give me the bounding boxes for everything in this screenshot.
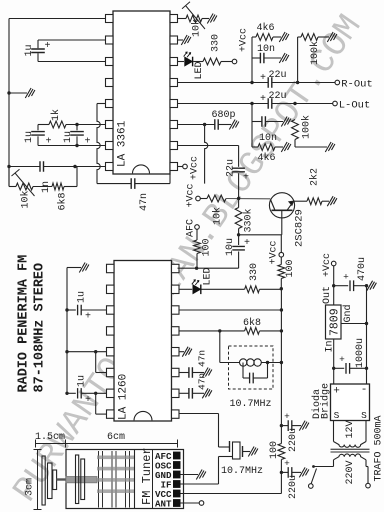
U2 left pin y=310.0 xyxy=(107,306,115,314)
svg-text:LA 3361: LA 3361 xyxy=(116,120,128,167)
node xyxy=(7,165,10,168)
node R 100k xyxy=(296,81,299,84)
svg-text:+: + xyxy=(284,411,290,422)
node xyxy=(73,165,76,168)
wire gnd stub xyxy=(9,92,27,94)
U2 left pin y=330.9 xyxy=(107,327,115,335)
resistor R16 100 xyxy=(278,444,285,460)
node xyxy=(332,284,335,287)
LED D1 xyxy=(178,61,185,63)
node AFC terminal xyxy=(195,225,200,230)
Q1 emitter arrow xyxy=(287,201,294,210)
svg-text:1u: 1u xyxy=(77,291,88,303)
svg-text:1k: 1k xyxy=(50,109,62,121)
LED D2 xyxy=(193,285,201,294)
U1 right pin y=61.5 xyxy=(170,58,178,66)
node xyxy=(94,392,97,395)
U2 left pin y=268.5 xyxy=(107,264,115,272)
wire U2 pin row8 to filter xyxy=(179,413,219,415)
wire U2 pin row4 with 6k8 xyxy=(179,330,245,332)
svg-text:100k: 100k xyxy=(301,115,313,139)
wire R-channel row xyxy=(178,82,269,84)
transistor U2 LA1260 FM IF IC xyxy=(114,261,172,422)
LED D1 xyxy=(185,57,193,66)
node R filter xyxy=(250,81,253,84)
T2 core xyxy=(331,448,370,450)
tuner pin IF xyxy=(173,480,181,488)
resistor R10 330k xyxy=(235,208,242,229)
svg-text:2k2: 2k2 xyxy=(309,168,321,186)
ground xyxy=(299,467,309,477)
SW1 lever xyxy=(311,469,316,484)
node xyxy=(280,471,283,474)
wire gnd rail xyxy=(366,286,368,384)
svg-text:Bridge: Bridge xyxy=(320,383,332,419)
svg-text:220V: 220V xyxy=(345,460,356,484)
U1 left pin y=145.5 xyxy=(106,142,114,150)
node rail-gnd junction xyxy=(7,91,10,94)
resistor R11 100 xyxy=(196,229,198,240)
ground xyxy=(181,35,191,45)
capacitor C18 1000u xyxy=(334,367,345,369)
node +Vcc pin9 xyxy=(183,164,188,169)
U2 left pin y=351.7 xyxy=(107,348,115,356)
svg-text:47n: 47n xyxy=(196,373,207,390)
svg-text:3cm: 3cm xyxy=(25,478,36,496)
svg-text:+: + xyxy=(244,238,250,249)
node LED2/330 junction xyxy=(280,287,283,290)
U2 right pin y=393.3 xyxy=(172,389,180,397)
node xyxy=(266,361,269,364)
capacitor C17 470u xyxy=(334,285,349,287)
svg-text:6cm: 6cm xyxy=(107,432,125,443)
svg-text:TRAFO 500mA: TRAFO 500mA xyxy=(374,415,384,481)
wire U1 pin2 xyxy=(38,39,106,41)
Q1 collector xyxy=(270,199,275,210)
tuner pin OSC xyxy=(173,461,181,469)
U1 left pin y=61.5 xyxy=(106,58,114,66)
ground xyxy=(207,14,217,24)
svg-text:680p: 680p xyxy=(211,110,235,121)
U1 left pin y=124.5 xyxy=(106,121,114,129)
node +Vcc supply terminal xyxy=(331,261,336,266)
resistor R15 6k8 xyxy=(245,328,260,335)
wire tuner GND xyxy=(181,474,199,476)
transformer T2 xyxy=(333,421,335,442)
svg-text:1u: 1u xyxy=(77,375,88,387)
svg-text:1u: 1u xyxy=(24,44,35,56)
tuner pin ANT xyxy=(173,499,181,507)
crystal X1 10.7MHz ceramic filter xyxy=(229,441,231,452)
U2 right pin y=414.1 xyxy=(172,410,180,418)
svg-text:+: + xyxy=(284,458,290,469)
svg-text:+: + xyxy=(44,41,50,52)
capacitor T1 cap xyxy=(242,363,244,379)
dimension lines xyxy=(36,443,178,445)
capacitor C5 22u xyxy=(268,77,272,88)
node 1k/1u junction xyxy=(75,123,78,126)
wire U1 pin3 xyxy=(38,61,106,63)
VR2 arrow xyxy=(182,2,205,29)
node xyxy=(280,361,283,364)
node +Vcc mid terminal xyxy=(196,196,201,201)
svg-text:+: + xyxy=(339,354,345,365)
wire U1 pin5 down-rail with hops xyxy=(97,103,106,105)
U2 right pin y=330.9 xyxy=(172,327,180,335)
svg-text:Out: Out xyxy=(322,286,333,304)
node mains terminal N xyxy=(366,483,371,488)
U1 left pin y=82.5 xyxy=(106,79,114,87)
svg-text:+: + xyxy=(243,173,249,184)
capacitor C13 47n xyxy=(179,372,189,374)
wire U2 pin-top row to 10u xyxy=(178,267,239,269)
capacitor C19 1u xyxy=(67,309,76,311)
resistor R2 1k xyxy=(38,124,49,126)
capacitor C15 220u xyxy=(281,425,288,427)
wire 680p down rail with hop xyxy=(205,125,208,184)
svg-text:330k: 330k xyxy=(243,208,255,232)
svg-text:ANT: ANT xyxy=(155,498,172,509)
resistor R9 10k xyxy=(200,198,207,200)
U2 notch xyxy=(134,411,152,420)
resistor VR2 10k pot (pin16) xyxy=(178,18,187,20)
ground xyxy=(229,120,239,130)
node xyxy=(65,308,68,311)
wire U2 pin row3 xyxy=(179,309,281,311)
switch SW1 xyxy=(312,465,315,468)
svg-text:7809: 7809 xyxy=(328,308,341,336)
svg-text:-: - xyxy=(361,384,368,396)
svg-text:+Vcc: +Vcc xyxy=(190,156,201,180)
svg-text:4k6: 4k6 xyxy=(257,152,275,164)
node xyxy=(280,424,283,427)
wire L branch rail xyxy=(251,104,253,148)
svg-text:1.5cm: 1.5cm xyxy=(35,432,65,443)
U2 right pin y=310.0 xyxy=(172,306,180,314)
svg-text:LA 1260: LA 1260 xyxy=(117,374,129,420)
svg-text:S: S xyxy=(361,410,367,421)
svg-text:+: + xyxy=(260,94,266,105)
resistor R6 100k xyxy=(297,37,299,83)
svg-text:10k: 10k xyxy=(191,19,203,37)
wire L-channel row xyxy=(178,103,269,105)
node xyxy=(332,367,335,370)
tuner pin GND xyxy=(173,471,181,479)
svg-text:+Vcc: +Vcc xyxy=(322,253,333,277)
node base bias xyxy=(237,197,240,200)
svg-text:22u: 22u xyxy=(268,70,286,81)
wire coil right xyxy=(261,362,281,364)
U2 left pin y=414.1 xyxy=(107,410,115,418)
node osc junction xyxy=(218,329,221,332)
wire U2 pins 5/6 strap xyxy=(67,351,107,353)
svg-text:10n: 10n xyxy=(257,44,275,55)
U2 left pin y=393.3 xyxy=(107,389,115,397)
U1 right pin y=18.5 xyxy=(170,15,178,23)
wire bottom path xyxy=(8,167,10,187)
wire U1 pin1 to left rail xyxy=(9,18,106,20)
U1 right pin y=82.5 xyxy=(170,79,178,87)
wire U1 pin8 row xyxy=(9,166,40,168)
svg-text:47n: 47n xyxy=(196,350,207,367)
capacitor C2 1u xyxy=(37,125,39,131)
wire left rail xyxy=(8,19,10,187)
svg-text:+: + xyxy=(85,312,91,323)
svg-text:10.7MHz: 10.7MHz xyxy=(221,466,263,477)
svg-text:+: + xyxy=(85,395,91,406)
node xyxy=(65,392,68,395)
ground xyxy=(279,32,289,42)
U2 left pin y=372.5 xyxy=(107,368,115,376)
resistor R5 4k6 xyxy=(252,36,256,38)
svg-text:4k6: 4k6 xyxy=(256,22,274,34)
svg-text:100: 100 xyxy=(285,259,296,277)
resistor R4 330 xyxy=(203,58,221,65)
svg-text:10n: 10n xyxy=(259,133,277,144)
wire U1 pin7 left xyxy=(38,145,106,147)
U1 right pin y=166.5 xyxy=(170,163,178,171)
transistor Q1 2SC829 xyxy=(269,193,294,218)
ground xyxy=(299,421,309,431)
tuner pin AFC xyxy=(173,452,181,460)
wire base to bias node xyxy=(239,234,282,236)
VR1 arrow xyxy=(12,169,35,196)
LED D2 xyxy=(179,288,192,290)
node L 100k xyxy=(293,102,296,105)
svg-text:220u: 220u xyxy=(288,475,299,499)
svg-text:100k: 100k xyxy=(309,41,321,65)
svg-text:1000u: 1000u xyxy=(355,338,366,368)
tuner knob xyxy=(42,456,45,505)
capacitor C20 1u xyxy=(67,392,76,394)
capacitor C14 47n xyxy=(179,392,189,394)
svg-text:R-Out: R-Out xyxy=(341,79,373,91)
U1 notch xyxy=(133,165,150,174)
ground xyxy=(279,53,289,63)
svg-text:+Vcc: +Vcc xyxy=(186,183,197,207)
node xyxy=(65,350,68,353)
capacitor C9 680p xyxy=(178,124,215,126)
U1 left pin y=40.0 xyxy=(106,36,114,44)
capacitor C10 22u xyxy=(238,146,240,167)
capacitor C16 220u xyxy=(281,471,288,473)
ground xyxy=(248,447,258,457)
resistor R14 330 xyxy=(245,286,260,293)
resistor R3 6k8 xyxy=(52,183,64,190)
svg-text:22u: 22u xyxy=(268,91,286,102)
node xyxy=(365,284,368,287)
svg-text:10u: 10u xyxy=(225,238,236,256)
op-amp U1 LA3361 stereo decoder IC xyxy=(113,11,170,174)
wire tuner ANT xyxy=(181,502,200,504)
svg-text:330: 330 xyxy=(249,263,260,281)
svg-text:10.7MHz: 10.7MHz xyxy=(229,399,271,410)
svg-text:1u: 1u xyxy=(24,131,35,143)
ground xyxy=(202,388,212,398)
svg-text:6k8: 6k8 xyxy=(243,317,261,329)
capacitor C11 47n xyxy=(97,183,131,185)
wire filter to IF pin xyxy=(219,456,233,458)
capacitor C8 10n xyxy=(252,121,262,123)
U2 right pin y=351.7 xyxy=(172,348,180,356)
tuner pin VCC xyxy=(173,490,181,498)
svg-text:+: + xyxy=(260,73,266,84)
wire U1 pin9 +Vcc xyxy=(178,166,183,168)
U2 right pin y=289.3 xyxy=(172,285,180,293)
svg-text:Gnd: Gnd xyxy=(342,304,354,322)
svg-text:100: 100 xyxy=(269,441,280,459)
ground xyxy=(202,368,212,378)
resistor R7 4k6 xyxy=(252,146,258,148)
svg-text:100: 100 xyxy=(202,238,213,256)
wire tuner VCC long xyxy=(181,493,282,495)
ground xyxy=(25,88,35,98)
node xyxy=(75,144,78,147)
ground xyxy=(281,117,291,127)
svg-text:87-108MHz STEREO: 87-108MHz STEREO xyxy=(32,263,47,393)
svg-text:+: + xyxy=(333,386,340,398)
wire U1 pin10 row xyxy=(178,145,239,147)
node xyxy=(280,308,283,311)
U1 left pin y=103.5 xyxy=(106,100,114,108)
svg-text:1u: 1u xyxy=(63,131,74,143)
resistor R8 100k xyxy=(292,120,299,140)
svg-text:330: 330 xyxy=(211,34,222,52)
wire U2 pin row5 gnd xyxy=(179,351,184,353)
capacitor C3 1u xyxy=(76,125,78,131)
svg-text:47n: 47n xyxy=(139,193,150,211)
svg-text:LED: LED xyxy=(194,61,205,79)
node AFC/pin junction xyxy=(195,267,198,270)
node L-Out terminal xyxy=(333,101,338,106)
svg-text:FM Tuner: FM Tuner xyxy=(140,447,154,505)
U1 left pin y=18.5 xyxy=(106,15,114,23)
ground xyxy=(79,263,89,273)
wire R branch rail xyxy=(251,37,253,83)
U1 right pin y=103.5 xyxy=(170,100,178,108)
wire U1 pin15 gnd xyxy=(178,39,184,41)
svg-text:+Vcc: +Vcc xyxy=(269,240,280,264)
node xyxy=(280,329,283,332)
node xyxy=(94,350,97,353)
node L filter xyxy=(250,102,253,105)
node +Vcc stub near Q1 xyxy=(280,235,282,253)
svg-text:RADIO PENERIMA FM: RADIO PENERIMA FM xyxy=(16,255,31,393)
svg-text:AFC: AFC xyxy=(186,219,197,237)
capacitor C12 10u xyxy=(238,235,240,245)
capacitor C4 1n xyxy=(40,161,44,172)
node R-Out terminal xyxy=(335,80,340,85)
svg-text:6k8: 6k8 xyxy=(57,192,69,210)
ground xyxy=(196,470,206,480)
svg-text:470u: 470u xyxy=(357,257,368,281)
wire osc junction down to coil xyxy=(219,331,221,363)
svg-text:+: + xyxy=(343,272,349,283)
capacitor C1 1u between pin2-pin3 xyxy=(37,40,39,48)
node xyxy=(365,367,368,370)
svg-text:LED: LED xyxy=(203,267,214,285)
U2 right pin y=372.5 xyxy=(172,368,180,376)
U1 right pin y=40.0 xyxy=(170,36,178,44)
T2 secondary winding xyxy=(334,442,367,448)
Q1 base wire xyxy=(281,210,283,235)
ground xyxy=(182,347,192,357)
ground xyxy=(325,142,335,152)
svg-text:10k: 10k xyxy=(212,207,224,225)
svg-text:S: S xyxy=(334,410,340,421)
ground xyxy=(281,142,291,152)
capacitor C7 22u xyxy=(268,98,272,109)
wire long vertical rail x=281.4 xyxy=(280,289,282,444)
svg-text:+Vcc: +Vcc xyxy=(239,28,250,52)
diode bridge B1 xyxy=(331,384,370,421)
node ANT terminal xyxy=(199,501,204,506)
wire U2 left rail xyxy=(66,268,68,394)
FM tuner outline xyxy=(66,450,184,509)
U1 left pin y=166.5 xyxy=(106,163,114,171)
ground xyxy=(327,32,337,42)
discriminator T1 10.7MHz dashed box xyxy=(229,346,274,389)
svg-text:L-Out: L-Out xyxy=(339,100,371,112)
resistor R12 2k2 xyxy=(294,200,307,202)
svg-text:12V: 12V xyxy=(345,420,356,438)
node 680p junction xyxy=(203,123,206,126)
U1 right pin y=145.5 xyxy=(170,142,178,150)
T2 primary winding xyxy=(334,454,367,460)
capacitor C6 10n xyxy=(252,57,261,59)
tuner gang plates xyxy=(76,455,79,504)
node xyxy=(365,322,368,325)
ground xyxy=(367,281,377,291)
node +Vcc terminal xyxy=(232,59,237,64)
svg-text:2SC829: 2SC829 xyxy=(294,209,306,247)
node mains terminal L xyxy=(309,484,314,489)
U2 right pin y=268.5 xyxy=(172,264,180,272)
wire U3 gnd xyxy=(341,323,367,325)
ground xyxy=(327,196,337,206)
svg-text:10k: 10k xyxy=(20,190,32,208)
U2 left pin y=289.3 xyxy=(107,285,115,293)
U1 right pin y=124.5 xyxy=(170,121,178,129)
node 330k/10u xyxy=(237,233,240,236)
inductor T1 coil xyxy=(240,359,247,366)
resistor R13 100 xyxy=(280,257,282,265)
resistor VR1 10k pot xyxy=(16,183,33,190)
svg-text:220u: 220u xyxy=(288,428,299,452)
svg-text:22u: 22u xyxy=(226,159,237,177)
